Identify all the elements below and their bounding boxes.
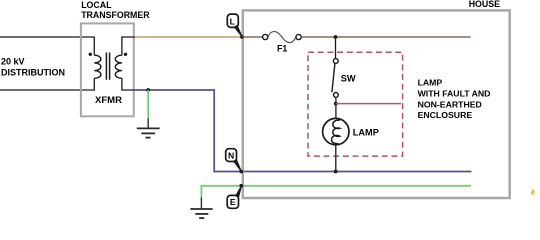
svg-text:E: E bbox=[230, 197, 236, 207]
junction N node dot bbox=[239, 170, 243, 174]
svg-text:NON-EARTHED: NON-EARTHED bbox=[418, 99, 482, 109]
junction transformer neutral earth point bbox=[146, 88, 150, 92]
label LAMP WITH FAULT AND NON-EARTHED ENCLOSURE bbox=[418, 78, 491, 120]
svg-text:ENCLOSURE: ENCLOSURE bbox=[418, 110, 473, 120]
switch SW bbox=[332, 59, 338, 98]
lamp fault dashed enclosure box bbox=[308, 52, 403, 156]
node L (live entry) balloon bbox=[227, 14, 242, 37]
house outline box bbox=[243, 10, 510, 198]
junction lamp neutral node bbox=[334, 170, 338, 174]
junction fault tap node bbox=[334, 102, 338, 106]
wire distribution line bottom (20kV feed, lower conductor) bbox=[0, 78, 94, 90]
svg-text:20 kV: 20 kV bbox=[1, 57, 25, 67]
transformer XFMR secondary winding bbox=[115, 55, 122, 78]
marker small yellow cursor mark bbox=[530, 189, 535, 197]
svg-text:LAMP: LAMP bbox=[353, 127, 379, 137]
svg-text:XFMR: XFMR bbox=[95, 95, 122, 106]
svg-text:F1: F1 bbox=[277, 44, 287, 54]
lamp LAMP bbox=[323, 118, 349, 144]
wire live overhead (orange) transformer to house bbox=[135, 36, 243, 38]
wire neutral (blue) transformer to house bbox=[135, 90, 472, 172]
svg-text:L: L bbox=[230, 16, 235, 26]
wire switch feed bbox=[335, 37, 337, 59]
wire secondary top terminal bbox=[122, 37, 135, 55]
svg-text:N: N bbox=[228, 150, 234, 160]
svg-text:WITH FAULT AND: WITH FAULT AND bbox=[418, 89, 491, 99]
wire earth (green) house run bbox=[201, 186, 471, 198]
svg-text:LAMP: LAMP bbox=[418, 78, 443, 88]
ground house earth electrode bbox=[190, 197, 212, 218]
svg-text:SW: SW bbox=[341, 73, 356, 83]
wire fault connection (red) to enclosure bbox=[336, 103, 401, 105]
fuse F1 bbox=[263, 31, 302, 42]
svg-text:TRANSFORMER: TRANSFORMER bbox=[81, 10, 150, 20]
transformer phasing dot primary bbox=[89, 53, 92, 56]
junction L node dot bbox=[240, 35, 244, 39]
junction E node dot bbox=[239, 184, 243, 188]
wire switch to lamp bbox=[335, 97, 337, 121]
svg-text:HOUSE: HOUSE bbox=[469, 0, 500, 9]
wire distribution line top (20kV feed, upper conductor) bbox=[0, 37, 94, 55]
wire live indoor after fuse bbox=[301, 36, 470, 38]
label 20 kV DISTRIBUTION bbox=[1, 57, 65, 78]
svg-text:LOCAL: LOCAL bbox=[81, 0, 112, 10]
wire earth drop at transformer (green) bbox=[147, 90, 149, 119]
transformer XFMR enclosure box bbox=[81, 23, 134, 116]
label LOCAL TRANSFORMER bbox=[81, 0, 150, 20]
junction live to switch bbox=[334, 35, 338, 39]
transformer XFMR primary winding bbox=[94, 55, 101, 78]
node E (earth entry) balloon bbox=[227, 186, 242, 208]
ground transformer earth electrode bbox=[137, 119, 160, 138]
svg-text:DISTRIBUTION: DISTRIBUTION bbox=[1, 68, 65, 78]
wire live indoor to fuse bbox=[242, 36, 263, 38]
transformer phasing dot secondary bbox=[124, 53, 127, 56]
wire secondary bottom terminal bbox=[122, 78, 135, 90]
transformer XFMR core bbox=[106, 53, 109, 80]
wire lamp to neutral bbox=[335, 143, 337, 172]
node N (neutral entry) balloon bbox=[226, 149, 242, 172]
